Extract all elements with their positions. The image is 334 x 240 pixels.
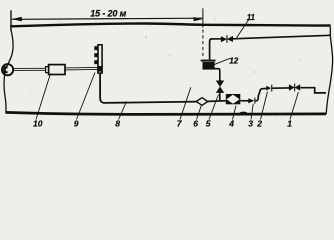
svg-text:6: 6 [193,119,198,129]
svg-text:3: 3 [248,119,253,129]
svg-text:8: 8 [115,119,120,129]
svg-text:5: 5 [206,119,211,129]
svg-text:11: 11 [247,13,256,22]
svg-text:2: 2 [256,119,262,129]
svg-text:9: 9 [74,118,79,128]
svg-text:4: 4 [228,119,234,129]
svg-text:12: 12 [229,57,238,66]
svg-text:10: 10 [33,118,43,128]
svg-text:15 - 20 м: 15 - 20 м [90,8,126,18]
svg-text:1: 1 [287,119,292,129]
